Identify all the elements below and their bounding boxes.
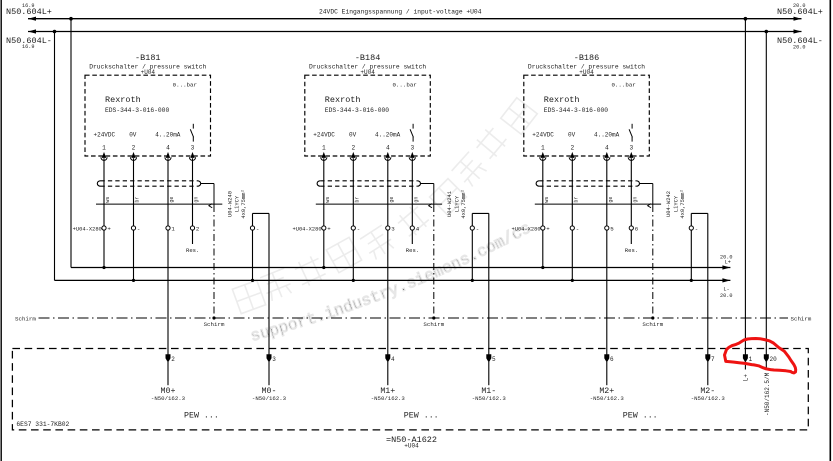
svg-text:1: 1 bbox=[171, 225, 175, 232]
svg-text:U04-W240: U04-W240 bbox=[227, 191, 233, 217]
wire bbox=[192, 158, 194, 226]
svg-text:4x0,75mm²: 4x0,75mm² bbox=[241, 189, 247, 218]
cable U04-W241 bbox=[317, 181, 320, 186]
svg-text:-: - bbox=[476, 225, 479, 232]
wire bbox=[606, 362, 608, 385]
wire bbox=[323, 158, 325, 226]
svg-text:LiYCY: LiYCY bbox=[455, 195, 461, 212]
svg-text:-: - bbox=[137, 225, 140, 232]
wire L- top bus bbox=[28, 31, 802, 33]
terminal 6 (M2+) bbox=[604, 354, 609, 362]
wire signal to PLC terminal bbox=[606, 230, 608, 355]
svg-text:Schirm: Schirm bbox=[15, 315, 36, 322]
PLC analog input module 6ES7 331-7KB02 bbox=[12, 349, 808, 430]
svg-text:20.0: 20.0 bbox=[720, 293, 732, 299]
svg-text:Res.: Res. bbox=[186, 247, 199, 254]
pressure contact of -B181 bbox=[192, 124, 194, 129]
shield drain to Schirm bus bbox=[640, 183, 653, 185]
shield drain pin - group 3 bbox=[689, 226, 693, 230]
red hand-drawn annotation circle around terminals 1 and 20 bbox=[725, 339, 796, 373]
drawing frame right border bbox=[829, 0, 831, 461]
wire bbox=[133, 158, 135, 226]
svg-text:6: 6 bbox=[635, 225, 639, 232]
terminal 3 (M0-) bbox=[267, 354, 272, 362]
wire pin + to L+ bus bbox=[103, 230, 105, 267]
svg-text:1: 1 bbox=[749, 356, 753, 363]
svg-text:+24VDC: +24VDC bbox=[313, 132, 335, 139]
svg-text:24VDC Eingangsspannung / input: 24VDC Eingangsspannung / input-voltage +… bbox=[319, 8, 482, 15]
svg-text:ge: ge bbox=[389, 197, 395, 203]
plug pin 4 of -B186 bbox=[605, 152, 609, 158]
wire drain pin to L- bus bbox=[252, 230, 254, 280]
svg-text:U04-W241: U04-W241 bbox=[447, 191, 453, 217]
plug pin 4 of -B181 bbox=[166, 152, 170, 158]
svg-text:support.industry.siemens.com/c: support.industry.siemens.com/cs bbox=[249, 219, 534, 345]
svg-text:5: 5 bbox=[492, 356, 496, 363]
svg-text:Schirm: Schirm bbox=[423, 321, 444, 328]
svg-text:Schirm: Schirm bbox=[642, 321, 663, 328]
pressure switch -B181 bbox=[85, 53, 211, 156]
svg-text:br: br bbox=[135, 197, 141, 203]
svg-text:PEW ...: PEW ... bbox=[404, 412, 439, 421]
svg-text:4: 4 bbox=[391, 356, 395, 363]
wire drain pin to M- bridge bbox=[252, 213, 254, 226]
wire L+ top bus bbox=[28, 18, 802, 20]
pressure contact of -B186 bbox=[631, 124, 633, 129]
svg-text:-: - bbox=[256, 225, 259, 232]
shield drain to Schirm bus bbox=[421, 183, 434, 185]
terminal 7 (M2-) bbox=[705, 354, 710, 362]
svg-text:4: 4 bbox=[166, 144, 170, 151]
svg-text:3: 3 bbox=[191, 144, 195, 151]
svg-text:4..20mA: 4..20mA bbox=[375, 132, 401, 139]
plug pin 2 of -B186 bbox=[570, 152, 574, 158]
wire pin + to L+ bus bbox=[542, 230, 544, 267]
wire bbox=[744, 362, 746, 370]
svg-text:0V: 0V bbox=[568, 132, 576, 139]
wire drain pin to M- bridge bbox=[690, 213, 692, 226]
svg-text:-N50/162.3: -N50/162.3 bbox=[472, 395, 507, 402]
svg-text:3: 3 bbox=[391, 225, 395, 232]
svg-text:20: 20 bbox=[770, 356, 778, 363]
svg-text:ws: ws bbox=[325, 197, 331, 203]
svg-text:+U04-X280: +U04-X280 bbox=[511, 226, 540, 232]
wire M- down to PLC terminal bbox=[707, 213, 709, 354]
terminal 1 (L+) bbox=[743, 354, 748, 362]
svg-text:16.9: 16.9 bbox=[22, 3, 34, 9]
svg-text:4: 4 bbox=[386, 144, 390, 151]
wire pin + to L+ bus bbox=[323, 230, 325, 267]
svg-text:-B184: -B184 bbox=[355, 53, 381, 63]
wire L+ feeder drop bbox=[69, 17, 73, 21]
svg-text:ws: ws bbox=[544, 197, 550, 203]
wire bbox=[765, 362, 767, 370]
plug pin 3 of -B181 bbox=[190, 152, 194, 158]
svg-text:br: br bbox=[354, 197, 360, 203]
cable U04-W242 bbox=[536, 181, 539, 186]
svg-text:20.0: 20.0 bbox=[793, 45, 805, 51]
svg-text:L+: L+ bbox=[743, 374, 750, 382]
wire bbox=[268, 362, 270, 385]
svg-text:0...bar: 0...bar bbox=[611, 81, 635, 88]
svg-text:2: 2 bbox=[171, 356, 175, 363]
cable screen line bbox=[316, 203, 442, 205]
svg-text:1: 1 bbox=[541, 144, 545, 151]
svg-text:0...bar: 0...bar bbox=[392, 81, 416, 88]
wire bbox=[488, 362, 490, 385]
wire to terminal 1 (L+) bbox=[744, 17, 748, 21]
svg-text:-: - bbox=[576, 225, 579, 232]
svg-text:EDS-344-3-016-000: EDS-344-3-016-000 bbox=[105, 107, 169, 114]
svg-text:Schirm: Schirm bbox=[791, 315, 812, 322]
svg-text:gn: gn bbox=[194, 197, 200, 203]
svg-text:5: 5 bbox=[610, 225, 614, 232]
svg-text:+U04: +U04 bbox=[404, 443, 419, 450]
shield drain to Schirm bus bbox=[201, 183, 214, 185]
wire pin - to L- bus bbox=[571, 230, 573, 280]
svg-text:Schirm: Schirm bbox=[204, 321, 225, 328]
svg-text:-N50/162.3: -N50/162.3 bbox=[252, 395, 287, 402]
wire bbox=[707, 362, 709, 385]
svg-text:3: 3 bbox=[629, 144, 633, 151]
svg-text:EDS-344-3-016-000: EDS-344-3-016-000 bbox=[325, 107, 389, 114]
svg-text:+U04-X280: +U04-X280 bbox=[292, 226, 321, 232]
terminal 20 (M) bbox=[764, 354, 769, 362]
svg-text:-N50/162.3: -N50/162.3 bbox=[371, 395, 406, 402]
wire bbox=[387, 158, 389, 226]
svg-text:-B181: -B181 bbox=[135, 53, 161, 63]
svg-text:7: 7 bbox=[711, 356, 715, 363]
plug pin 2 of -B181 bbox=[131, 152, 135, 158]
svg-text:3: 3 bbox=[272, 356, 276, 363]
wire bbox=[103, 158, 105, 226]
reserved stub bbox=[192, 230, 194, 244]
svg-text:2: 2 bbox=[196, 225, 200, 232]
svg-text:4..20mA: 4..20mA bbox=[155, 132, 181, 139]
svg-text:-B186: -B186 bbox=[574, 53, 600, 63]
shield drain pin - group 1 bbox=[250, 226, 254, 230]
wire bbox=[387, 362, 389, 385]
svg-text:4: 4 bbox=[416, 225, 420, 232]
wire bbox=[167, 362, 169, 385]
wire M- down to PLC terminal bbox=[488, 213, 490, 354]
wire bbox=[542, 158, 544, 226]
plug pin 3 of -B186 bbox=[629, 152, 633, 158]
watermark bbox=[232, 98, 537, 314]
svg-text:br: br bbox=[573, 197, 579, 203]
pressure switch -B186 bbox=[524, 53, 650, 156]
pressure contact of -B184 bbox=[412, 124, 414, 129]
svg-text:Rexroth: Rexroth bbox=[544, 95, 580, 105]
svg-text:0V: 0V bbox=[349, 132, 357, 139]
terminal 2 (M0+) bbox=[166, 354, 171, 362]
plug pin 1 of -B181 bbox=[102, 152, 106, 158]
wire to terminal 20 (M) bbox=[765, 30, 769, 34]
wire pin - to L- bus bbox=[352, 230, 354, 280]
svg-text:20.0: 20.0 bbox=[793, 3, 805, 9]
svg-text:+U04-X280: +U04-X280 bbox=[73, 226, 102, 232]
wire drain pin to L- bus bbox=[471, 230, 473, 280]
svg-text:0...bar: 0...bar bbox=[173, 81, 197, 88]
svg-text:PEW ...: PEW ... bbox=[623, 412, 658, 421]
wire bbox=[352, 158, 354, 226]
wire L+ distribution bus bbox=[71, 267, 730, 269]
svg-text:16.9: 16.9 bbox=[22, 44, 34, 50]
wire signal to PLC terminal bbox=[387, 230, 389, 355]
shield drain pin - group 2 bbox=[470, 226, 474, 230]
svg-text:ge: ge bbox=[169, 197, 175, 203]
wire bbox=[411, 158, 413, 226]
svg-text:ge: ge bbox=[608, 197, 614, 203]
cable U04-W240 bbox=[97, 181, 100, 186]
svg-text:-N50/162.3: -N50/162.3 bbox=[590, 395, 625, 402]
plug pin 4 of -B184 bbox=[386, 152, 390, 158]
cable screen line bbox=[96, 203, 222, 205]
wire L- distribution bus bbox=[55, 279, 731, 281]
reserved stub bbox=[630, 230, 632, 244]
svg-text:Res.: Res. bbox=[625, 247, 638, 254]
svg-text:U04-W242: U04-W242 bbox=[666, 191, 672, 217]
svg-text:-: - bbox=[695, 225, 698, 232]
wire bbox=[630, 158, 632, 226]
svg-text:2: 2 bbox=[132, 144, 136, 151]
svg-text:2: 2 bbox=[570, 144, 574, 151]
svg-text:4: 4 bbox=[605, 144, 609, 151]
svg-text:LiYCY: LiYCY bbox=[235, 195, 241, 212]
svg-text:0V: 0V bbox=[129, 132, 137, 139]
drawing frame left border bbox=[0, 0, 2, 461]
svg-text:3: 3 bbox=[410, 144, 414, 151]
svg-text:+: + bbox=[327, 225, 331, 232]
wire bbox=[606, 158, 608, 226]
svg-text:Res.: Res. bbox=[406, 247, 419, 254]
svg-text:PEW ...: PEW ... bbox=[184, 412, 219, 421]
terminal 5 (M1-) bbox=[486, 354, 491, 362]
wire drain pin to M- bridge bbox=[471, 213, 473, 226]
wire bbox=[571, 158, 573, 226]
svg-text:gn: gn bbox=[632, 197, 638, 203]
svg-text:6: 6 bbox=[610, 356, 614, 363]
plug pin 1 of -B184 bbox=[322, 152, 326, 158]
plug pin 2 of -B184 bbox=[351, 152, 355, 158]
svg-text:-N50/162.3: -N50/162.3 bbox=[691, 395, 726, 402]
svg-text:+24VDC: +24VDC bbox=[94, 132, 116, 139]
wire bbox=[167, 158, 169, 226]
terminal 4 (M1+) bbox=[385, 354, 390, 362]
svg-text:4..20mA: 4..20mA bbox=[594, 132, 620, 139]
svg-text:L+: L+ bbox=[725, 260, 731, 266]
svg-text:4x0,75mm²: 4x0,75mm² bbox=[680, 189, 686, 218]
svg-text:1: 1 bbox=[102, 144, 106, 151]
svg-text:2: 2 bbox=[351, 144, 355, 151]
svg-text:ws: ws bbox=[105, 197, 111, 203]
svg-text:-N50/162.5/M: -N50/162.5/M bbox=[764, 372, 771, 416]
svg-text:+: + bbox=[546, 225, 550, 232]
pressure switch -B184 bbox=[305, 53, 431, 156]
svg-text:4x0,75mm²: 4x0,75mm² bbox=[461, 189, 467, 218]
svg-text:gn: gn bbox=[413, 197, 419, 203]
wire pin - to L- bus bbox=[133, 230, 135, 280]
reserved stub bbox=[411, 230, 413, 244]
cable screen line bbox=[535, 203, 661, 205]
svg-text:Rexroth: Rexroth bbox=[105, 95, 141, 105]
plug pin 3 of -B184 bbox=[410, 152, 414, 158]
svg-text:6ES7 331-7KB02: 6ES7 331-7KB02 bbox=[16, 421, 69, 428]
svg-text:-N50/162.3: -N50/162.3 bbox=[151, 395, 186, 402]
svg-text:LiYCY: LiYCY bbox=[674, 195, 680, 212]
svg-text:EDS-344-3-016-000: EDS-344-3-016-000 bbox=[544, 107, 608, 114]
svg-text:Rexroth: Rexroth bbox=[325, 95, 361, 105]
svg-text:+24VDC: +24VDC bbox=[532, 132, 554, 139]
plug pin 1 of -B186 bbox=[541, 152, 545, 158]
svg-text:L-: L- bbox=[723, 287, 729, 293]
wire L- feeder drop bbox=[53, 30, 57, 34]
wire M- down to PLC terminal bbox=[268, 213, 270, 354]
svg-text:+: + bbox=[107, 225, 111, 232]
wire drain pin to L- bus bbox=[690, 230, 692, 280]
svg-text:1: 1 bbox=[322, 144, 326, 151]
svg-text:-: - bbox=[357, 225, 360, 232]
wire signal to PLC terminal bbox=[167, 230, 169, 355]
